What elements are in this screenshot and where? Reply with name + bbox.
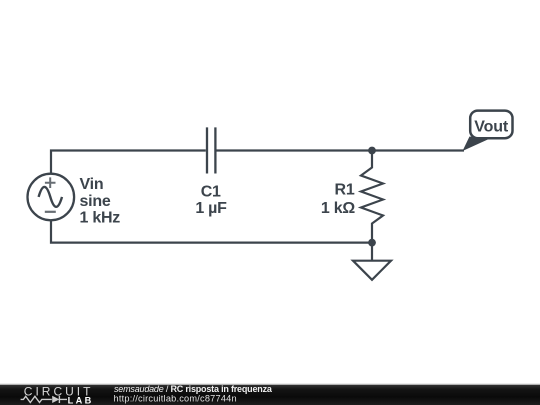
svg-text:sine: sine: [80, 193, 111, 210]
voltage source minus sign: [45, 211, 56, 213]
svg-text:1 kΩ: 1 kΩ: [321, 200, 355, 217]
wire bottom from source to R1 bottom: [51, 220, 372, 242]
voltage source sine wave: [39, 187, 62, 207]
capacitor C1 plates: [207, 127, 215, 173]
ground symbol: [353, 261, 391, 280]
node dot bottom at R1/ground junction: [368, 239, 376, 247]
svg-text:R1: R1: [335, 182, 355, 199]
wire from C1 right plate to Vout end: [217, 149, 465, 151]
footer bar: [0, 384, 540, 385]
Vout callout box: [470, 111, 512, 139]
voltage source plus sign: [45, 177, 56, 188]
wire from bottom node to ground: [371, 243, 373, 261]
Vout callout tail: [463, 137, 491, 152]
svg-text:Vout: Vout: [474, 119, 509, 136]
logo resistor zigzag: [21, 396, 52, 402]
wire top-left from source to C1 left plate: [51, 151, 206, 174]
logo diode: [52, 396, 59, 403]
svg-text:1 µF: 1 µF: [195, 200, 227, 217]
svg-text:1 kHz: 1 kHz: [80, 210, 121, 227]
svg-text:Vin: Vin: [80, 176, 104, 193]
node dot top at R1/C1/Vout junction: [368, 147, 376, 155]
resistor R1 zigzag: [361, 151, 383, 243]
voltage source V1 circle: [28, 174, 75, 221]
svg-text:C1: C1: [201, 183, 221, 200]
svg-text:http://circuitlab.com/c87744n: http://circuitlab.com/c87744n: [114, 393, 237, 403]
svg-text:LAB: LAB: [68, 395, 94, 405]
